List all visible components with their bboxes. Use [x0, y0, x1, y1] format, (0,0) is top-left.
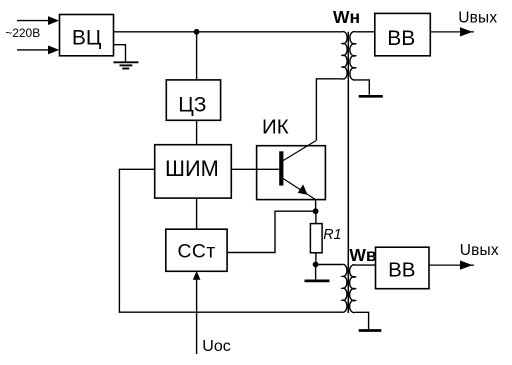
block PWM (ШИМ): [155, 145, 232, 198]
output arrow Uvyh top: [430, 28, 474, 36]
node below R1: [313, 262, 319, 268]
transformer T2 secondary winding: [350, 265, 356, 313]
resistor R1: [310, 211, 322, 264]
transistor emitter diagonal with arrow: [283, 179, 315, 200]
transformer T1 secondary winding: [350, 32, 355, 80]
wire CZ to PWM: [196, 120, 198, 144]
block VV2 (ВВ bottom): [376, 247, 430, 289]
ground (T2 secondary, single bar): [359, 329, 382, 332]
svg-text:Wн: Wн: [333, 7, 360, 27]
input arrow ~220V top: [17, 17, 58, 25]
input arrow ~220V bottom: [17, 46, 58, 54]
node emitter junction: [313, 208, 319, 214]
wire emitter to node: [315, 200, 317, 212]
block VC (ВЦ input rectifier): [60, 15, 114, 56]
output arrow Uvyh bottom: [429, 261, 474, 269]
svg-text:ВВ: ВВ: [388, 259, 415, 282]
node junction on bus: [194, 29, 200, 35]
block VV1 (ВВ top): [375, 13, 431, 55]
svg-text:ССт: ССт: [178, 241, 216, 262]
transistor collector diagonal: [283, 140, 316, 160]
wire Uoc input with arrow into SSt: [193, 272, 200, 354]
svg-text:ВЦ: ВЦ: [72, 27, 102, 50]
ground (VC, three-bar earth): [113, 62, 138, 68]
svg-text:ИК: ИК: [262, 116, 289, 139]
svg-text:Wв: Wв: [349, 245, 377, 265]
block SSt (ССт): [166, 229, 227, 271]
transistor Q (base bar): [279, 151, 283, 185]
transformer T2 primary winding Wv: [342, 264, 347, 312]
wire node to T2 primary top: [316, 264, 343, 266]
wire collector to winding Wn: [316, 79, 342, 141]
wire node to ground: [315, 265, 317, 280]
wire PWM feedback (left side down to bottom rail): [119, 169, 342, 312]
ground (below R1, single bar): [305, 279, 330, 282]
wire T1 secondary top to VV1: [355, 31, 375, 33]
block IK transistor box: [257, 146, 326, 200]
transformer T1 primary winding Wn: [342, 32, 347, 79]
svg-text:Uвых: Uвых: [460, 242, 499, 259]
wire T1 secondary bottom to ground: [355, 80, 369, 95]
block CZ (ЦЗ): [166, 80, 220, 120]
svg-text:ВВ: ВВ: [387, 27, 415, 50]
wire PWM to SSt: [196, 198, 198, 229]
svg-text:Uос: Uос: [202, 338, 230, 355]
wire T2 secondary bottom to ground: [355, 312, 368, 329]
wire PWM to transistor base: [231, 168, 279, 170]
wire VC ground stub: [114, 45, 126, 62]
svg-text:~220В: ~220В: [5, 26, 40, 40]
svg-text:R1: R1: [323, 227, 341, 243]
transformer T1 core line: [347, 32, 349, 313]
svg-text:Uвых: Uвых: [458, 9, 497, 26]
wire T2 secondary top to VV2: [355, 264, 375, 266]
ground (T1 secondary, single bar): [359, 95, 383, 98]
svg-text:ШИМ: ШИМ: [165, 156, 219, 181]
wire node to CZ: [196, 32, 198, 80]
wire main bus VC to transformer: [114, 31, 343, 33]
wire SSt right to emitter node: [227, 211, 316, 252]
svg-text:ЦЗ: ЦЗ: [178, 94, 206, 117]
